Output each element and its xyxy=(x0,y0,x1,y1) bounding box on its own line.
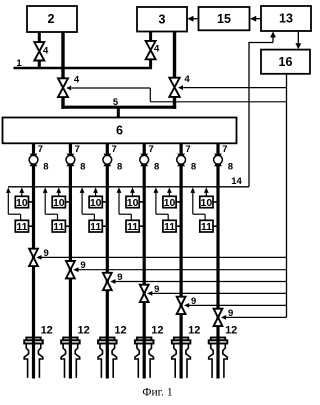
label 9 (pipe 6) xyxy=(228,308,233,319)
svg-text:4: 4 xyxy=(154,44,160,55)
valve 4 (manual, under box 3) xyxy=(146,41,156,59)
wire sensor 10 to line 14 xyxy=(19,187,24,196)
svg-text:9: 9 xyxy=(228,308,233,319)
arrow into valve 9 (pipe 4) xyxy=(147,291,152,296)
pipe from box 3 right outlet xyxy=(173,32,176,79)
svg-text:12: 12 xyxy=(77,325,89,337)
block 15 xyxy=(199,7,250,30)
pipe valve to line 5 (left) xyxy=(61,97,64,109)
svg-text:9: 9 xyxy=(154,284,159,295)
svg-text:1: 1 xyxy=(16,58,22,69)
wellhead 12 (well 1) xyxy=(24,338,43,378)
label 8 (pipe 2) xyxy=(80,161,85,172)
label 4 (control valve right) xyxy=(184,74,190,85)
svg-text:12: 12 xyxy=(151,325,163,337)
sensor 10 (pipe 6) xyxy=(200,196,213,209)
svg-text:12: 12 xyxy=(225,325,237,337)
pipe 3 from box 6 to wellhead xyxy=(106,143,109,378)
block 2 xyxy=(27,6,77,32)
svg-text:7: 7 xyxy=(148,144,153,155)
arrow into valve 9 (pipe 6) xyxy=(221,315,226,320)
svg-text:4: 4 xyxy=(43,45,49,56)
label 9 (pipe 2) xyxy=(80,260,85,271)
wire sensor 10 to pipe xyxy=(102,201,107,203)
control wire to valve 9 (pipe 1) xyxy=(41,256,286,258)
wire sensor 11 to pipe xyxy=(102,225,107,227)
label 4 (manual valve under box 3) xyxy=(154,44,160,55)
arrow 15 to 3 xyxy=(187,16,198,22)
line 1 (inlet manifold) xyxy=(14,67,153,70)
label 8 (pipe 6) xyxy=(228,161,233,172)
block 3 xyxy=(137,7,187,32)
wire sensor 11 to line 14 xyxy=(190,187,205,220)
svg-text:8: 8 xyxy=(191,161,196,172)
svg-text:16: 16 xyxy=(279,55,293,69)
control wire to valve 9 (pipe 6) xyxy=(226,316,287,318)
wire sensor 11 to pipe xyxy=(139,225,144,227)
svg-text:12: 12 xyxy=(188,325,200,337)
wire sensor 11 to pipe xyxy=(213,225,218,227)
wire sensor 10 to line 14 xyxy=(204,187,209,196)
label 5 xyxy=(113,97,119,108)
svg-text:12: 12 xyxy=(41,325,53,337)
pipe valve to line 5 (right) xyxy=(173,96,176,109)
svg-text:11: 11 xyxy=(164,221,175,233)
svg-text:12: 12 xyxy=(114,325,126,337)
svg-text:10: 10 xyxy=(90,197,102,209)
wire sensor 10 to pipe xyxy=(213,201,218,203)
block 13 xyxy=(261,6,311,31)
sensor 11 (pipe 1) xyxy=(15,220,28,233)
control wire to valve 9 (pipe 3) xyxy=(115,281,287,283)
wellhead 12 (well 6) xyxy=(209,338,228,378)
wire sensor 10 to pipe xyxy=(176,201,181,203)
wire sensor 10 to line 14 xyxy=(167,187,172,196)
wire sensor 11 to line 14 xyxy=(43,187,58,220)
label 4 (manual valve under box 2) xyxy=(43,45,49,56)
arrow 13 to 15 xyxy=(250,16,261,22)
svg-text:7: 7 xyxy=(222,144,227,155)
flow sensor 7/8 on pipe 2 xyxy=(66,154,75,167)
control valve 4 (line from box 3) xyxy=(169,78,179,97)
wire sensor 11 to line 14 xyxy=(117,187,132,220)
label 7 (pipe 4) xyxy=(148,144,153,155)
label 9 (pipe 5) xyxy=(191,296,196,307)
svg-text:8: 8 xyxy=(228,161,233,172)
label 8 (pipe 4) xyxy=(154,161,159,172)
line 5 (distribution header) xyxy=(61,106,176,109)
sensor 11 (pipe 2) xyxy=(52,220,65,233)
svg-text:8: 8 xyxy=(117,161,122,172)
wire sensor 11 to pipe xyxy=(65,225,70,227)
wire sensor 11 to pipe xyxy=(176,225,181,227)
sensor 10 (pipe 5) xyxy=(163,196,176,209)
arrow 13 to 16 xyxy=(295,31,301,49)
pipe 5 from box 6 to wellhead xyxy=(180,143,183,378)
svg-text:6: 6 xyxy=(116,123,123,137)
sensor 10 (pipe 4) xyxy=(126,196,139,209)
label 12 (well 4) xyxy=(151,325,163,337)
wire sensor 10 to pipe xyxy=(29,201,34,203)
pipe 2 from box 6 to wellhead xyxy=(69,143,72,378)
label 7 (pipe 2) xyxy=(75,144,80,155)
valve 4 (manual, under box 2) xyxy=(34,42,44,60)
svg-text:15: 15 xyxy=(217,12,231,26)
label 9 (pipe 3) xyxy=(117,272,122,283)
label 8 (pipe 3) xyxy=(117,161,122,172)
shutoff valve 9 (pipe 5) xyxy=(177,297,186,314)
arrow into valve 9 (pipe 2) xyxy=(73,267,78,272)
pipe 6 from box 6 to wellhead xyxy=(216,143,219,378)
svg-text:3: 3 xyxy=(159,12,166,26)
label 7 (pipe 1) xyxy=(38,144,43,155)
control valve 4 (line from box 2) xyxy=(58,78,68,97)
wire sensor 11 to line 14 xyxy=(154,187,169,220)
svg-text:9: 9 xyxy=(191,296,196,307)
sensor 11 (pipe 5) xyxy=(163,220,176,233)
sensor 10 (pipe 2) xyxy=(52,196,65,209)
control bus from box 16 xyxy=(286,74,288,317)
pipe valve 4 to line 1 right end xyxy=(149,59,152,69)
sensor 11 (pipe 4) xyxy=(126,220,139,233)
svg-text:7: 7 xyxy=(112,144,117,155)
flow sensor 7/8 on pipe 6 xyxy=(214,154,223,167)
svg-text:Фиг. 1: Фиг. 1 xyxy=(142,387,172,399)
sensor 11 (pipe 6) xyxy=(200,220,213,233)
control wire to valve 9 (pipe 2) xyxy=(78,269,287,271)
svg-text:13: 13 xyxy=(279,12,293,26)
svg-text:2: 2 xyxy=(48,12,55,26)
arrow into valve 9 (pipe 5) xyxy=(184,303,189,308)
svg-text:11: 11 xyxy=(53,221,64,233)
control wire to valve 9 (pipe 4) xyxy=(152,292,287,294)
control wire to valve 4 left xyxy=(72,88,287,102)
wire sensor 11 to line 14 xyxy=(80,187,95,220)
label 4 (control valve left) xyxy=(74,75,80,86)
svg-text:8: 8 xyxy=(43,161,48,172)
svg-text:7: 7 xyxy=(38,144,43,155)
label 12 (well 1) xyxy=(41,325,53,337)
wellhead 12 (well 2) xyxy=(61,338,80,378)
block 16 xyxy=(261,50,310,74)
shutoff valve 9 (pipe 4) xyxy=(140,285,149,302)
svg-text:8: 8 xyxy=(80,161,85,172)
wellhead 12 (well 4) xyxy=(135,338,154,378)
shutoff valve 9 (pipe 6) xyxy=(214,309,223,326)
svg-text:10: 10 xyxy=(16,197,28,209)
arrow into valve 9 (pipe 3) xyxy=(110,279,115,284)
label 12 (well 3) xyxy=(114,325,126,337)
wire sensor 11 to pipe xyxy=(29,225,34,227)
svg-text:9: 9 xyxy=(43,248,48,259)
svg-text:10: 10 xyxy=(164,197,176,209)
wire sensor 10 to pipe xyxy=(65,201,70,203)
line 14 (signal bus) xyxy=(8,186,249,188)
pipe from box 2 right outlet xyxy=(61,32,64,79)
shutoff valve 9 (pipe 1) xyxy=(29,249,38,266)
sensor 10 (pipe 1) xyxy=(15,196,28,209)
svg-text:7: 7 xyxy=(75,144,80,155)
flow sensor 7/8 on pipe 4 xyxy=(140,154,149,167)
wire sensor 10 to line 14 xyxy=(130,187,135,196)
svg-text:10: 10 xyxy=(201,197,213,209)
wire line 14 up to box 13 xyxy=(248,32,276,187)
label 7 (pipe 6) xyxy=(222,144,227,155)
svg-text:9: 9 xyxy=(80,260,85,271)
svg-text:11: 11 xyxy=(127,221,138,233)
pipe 1 from box 6 to wellhead xyxy=(32,143,35,378)
block 6 (distributor) xyxy=(3,118,237,144)
flow sensor 7/8 on pipe 1 xyxy=(29,154,38,167)
pipe from box 3 left outlet xyxy=(149,32,152,43)
control wire to valve 9 (pipe 5) xyxy=(189,304,287,306)
svg-text:10: 10 xyxy=(53,197,65,209)
svg-text:11: 11 xyxy=(201,221,212,233)
flow sensor 7/8 on pipe 3 xyxy=(103,154,112,167)
pipe from box 2 left outlet xyxy=(38,32,41,43)
svg-text:11: 11 xyxy=(90,221,101,233)
label 14 xyxy=(231,176,242,187)
svg-text:4: 4 xyxy=(184,74,190,85)
svg-text:8: 8 xyxy=(154,161,159,172)
label 9 (pipe 4) xyxy=(154,284,159,295)
label 1 xyxy=(16,58,22,69)
shutoff valve 9 (pipe 3) xyxy=(103,273,112,290)
wire sensor 10 to line 14 xyxy=(56,187,61,196)
label 8 (pipe 5) xyxy=(191,161,196,172)
arrow into valve 4 left xyxy=(66,86,71,91)
sensor 11 (pipe 3) xyxy=(89,220,102,233)
svg-text:11: 11 xyxy=(16,221,27,233)
label 9 (pipe 1) xyxy=(43,248,48,259)
label 7 (pipe 5) xyxy=(185,144,190,155)
label 7 (pipe 3) xyxy=(112,144,117,155)
wire sensor 11 to line 14 xyxy=(6,187,21,220)
control wire to valve 4 right xyxy=(183,87,286,89)
svg-text:9: 9 xyxy=(117,272,122,283)
svg-text:10: 10 xyxy=(127,197,139,209)
svg-text:14: 14 xyxy=(231,176,242,187)
wire sensor 10 to pipe xyxy=(139,201,144,203)
wellhead 12 (well 5) xyxy=(172,338,191,378)
pipe valve 4 to line 1 xyxy=(38,60,41,69)
label 12 (well 6) xyxy=(225,325,237,337)
label 12 (well 5) xyxy=(188,325,200,337)
stub line 5 to box 6 xyxy=(117,107,120,118)
wire sensor 10 to line 14 xyxy=(93,187,98,196)
wellhead 12 (well 3) xyxy=(98,338,117,378)
flow sensor 7/8 on pipe 5 xyxy=(177,154,186,167)
svg-text:4: 4 xyxy=(74,75,80,86)
sensor 10 (pipe 3) xyxy=(89,196,102,209)
caption xyxy=(142,387,172,399)
arrow into valve 4 right xyxy=(178,85,183,90)
svg-text:7: 7 xyxy=(185,144,190,155)
arrow into valve 9 (pipe 1) xyxy=(36,255,41,260)
label 12 (well 2) xyxy=(77,325,89,337)
pipe 4 from box 6 to wellhead xyxy=(143,143,146,378)
shutoff valve 9 (pipe 2) xyxy=(66,261,75,278)
svg-text:5: 5 xyxy=(113,97,119,108)
label 8 (pipe 1) xyxy=(43,161,48,172)
